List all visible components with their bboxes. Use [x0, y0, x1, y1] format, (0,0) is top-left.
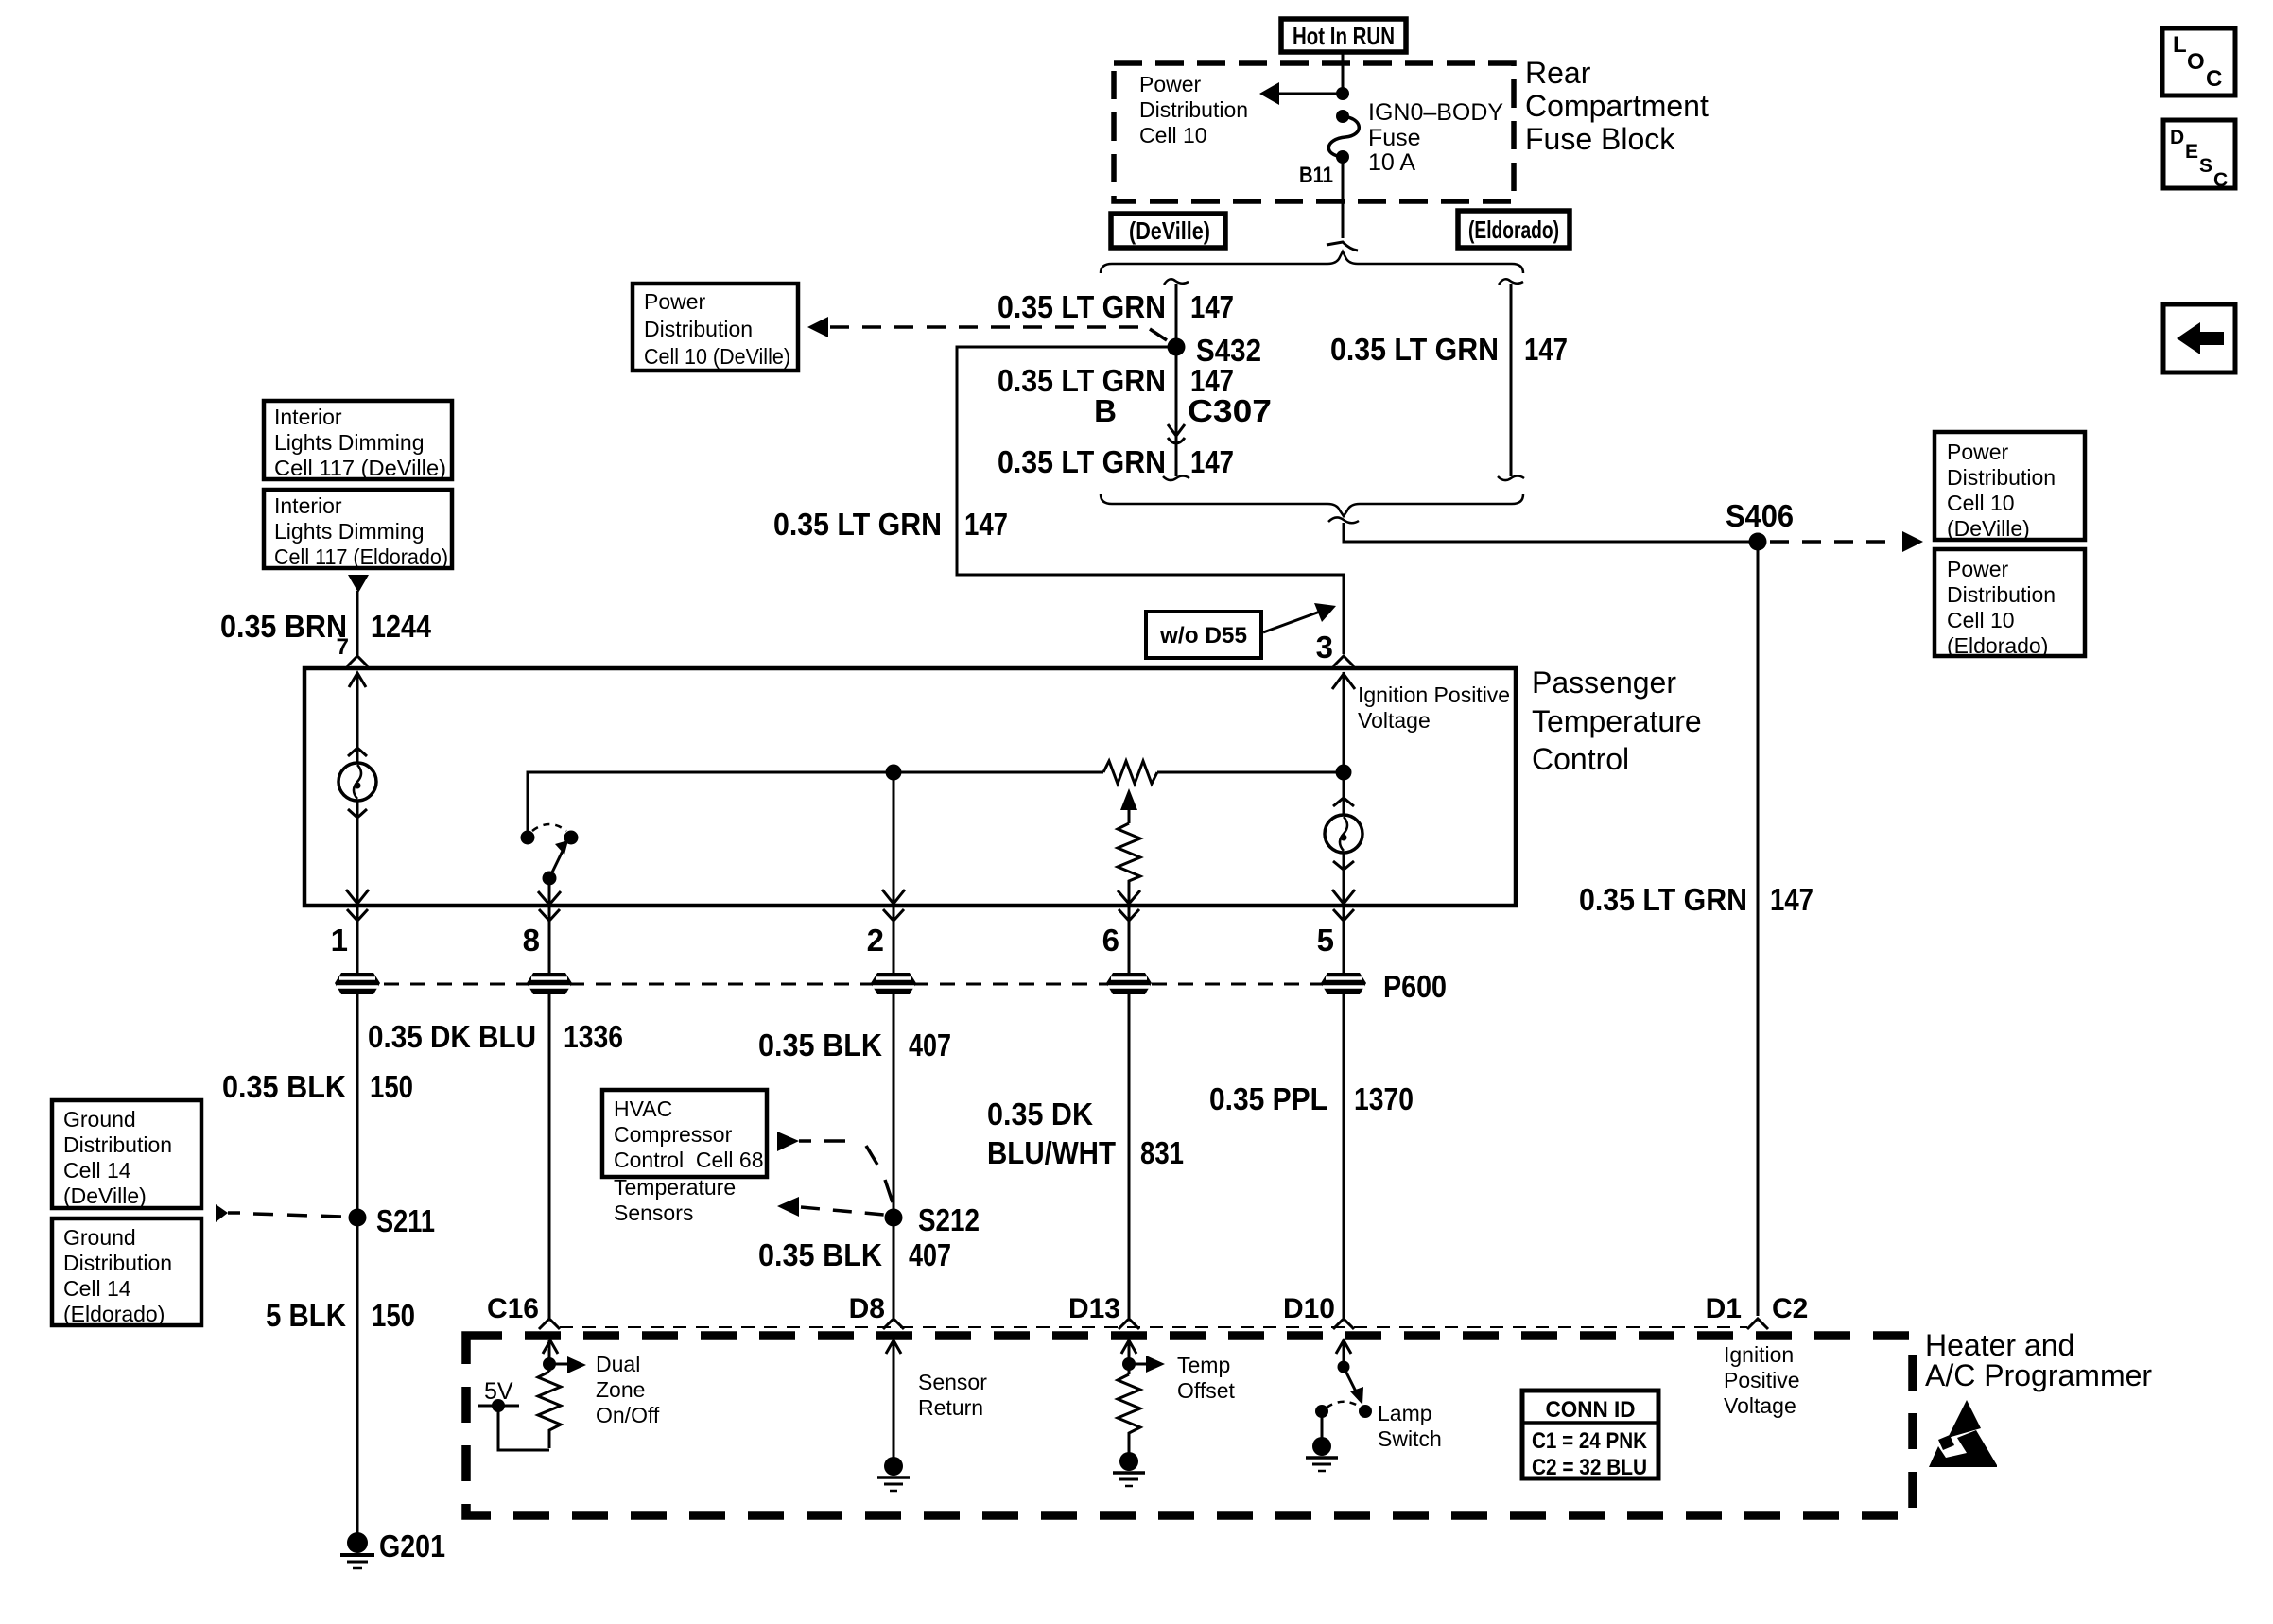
svg-text:0.35 BLK: 0.35 BLK — [758, 1028, 882, 1063]
svg-text:0.35 LT GRN: 0.35 LT GRN — [998, 289, 1166, 324]
svg-text:D1: D1 — [1706, 1293, 1742, 1324]
P600 connector symbol pin 1 — [335, 973, 380, 994]
resistor dual zone — [538, 1372, 561, 1448]
back arrow icon box — [2163, 304, 2235, 372]
dashed arrow Temperature Sensors to S212 — [777, 1197, 799, 1217]
svg-text:5 BLK: 5 BLK — [266, 1298, 346, 1333]
svg-text:IGN0–BODY: IGN0–BODY — [1368, 99, 1503, 126]
resistor (temperature rheostat) on bus — [1103, 761, 1157, 784]
svg-text:Control: Control — [1532, 742, 1629, 776]
Ground Distribution Cell 14 (Eldorado) box — [52, 1218, 201, 1325]
Power Distribution Cell 10 (DeVille) callout box — [633, 284, 798, 371]
svg-text:Cell 10: Cell 10 — [1947, 608, 2015, 632]
svg-text:P600: P600 — [1383, 969, 1447, 1004]
svg-text:BLU/WHT: BLU/WHT — [987, 1135, 1116, 1170]
LOC icon box — [2162, 28, 2235, 95]
Interior Lights Dimming Cell 117 (Eldorado) box — [264, 490, 452, 568]
splice S211 — [349, 1209, 367, 1227]
svg-text:Dual: Dual — [596, 1352, 640, 1376]
P600 connector symbol pin 2 — [871, 973, 916, 994]
svg-text:Voltage: Voltage — [1358, 708, 1431, 733]
svg-text:Control Cell 68: Control Cell 68 — [614, 1148, 764, 1172]
Power Distribution Cell 10 (Eldorado) box right — [1935, 549, 2085, 656]
svg-text:0.35 DK BLU: 0.35 DK BLU — [368, 1019, 536, 1054]
CONN ID box — [1522, 1391, 1658, 1478]
svg-text:L: L — [2173, 32, 2187, 58]
svg-text:Distribution: Distribution — [1139, 97, 1248, 122]
svg-text:0.35 LT GRN: 0.35 LT GRN — [998, 363, 1166, 398]
svg-text:Distribution: Distribution — [1947, 582, 2056, 607]
wire from S432 left and down to pin 3 — [957, 347, 1344, 654]
svg-text:Sensor: Sensor — [918, 1370, 987, 1394]
(DeVille) box — [1111, 214, 1225, 248]
(Eldorado) box — [1458, 211, 1570, 248]
dashed arrow to Power Distribution Cell 10 (DeVille) — [807, 317, 828, 337]
P600 connector symbol pin 6 — [1106, 973, 1152, 994]
svg-text:0.35 LT GRN: 0.35 LT GRN — [998, 444, 1166, 479]
svg-text:1: 1 — [331, 923, 348, 958]
wire pin 2 down to D8 — [893, 906, 895, 1318]
svg-text:B: B — [1094, 393, 1117, 428]
svg-text:10 A: 10 A — [1368, 149, 1415, 176]
svg-text:Positive: Positive — [1724, 1368, 1800, 1392]
svg-text:G201: G201 — [379, 1529, 445, 1564]
svg-text:Ground: Ground — [63, 1107, 136, 1132]
svg-text:3: 3 — [1316, 630, 1333, 665]
svg-text:Fuse Block: Fuse Block — [1525, 122, 1675, 156]
brace splitting to DeVille and Eldorado — [1101, 251, 1523, 273]
svg-text:Interior: Interior — [274, 405, 342, 429]
svg-text:Passenger: Passenger — [1532, 665, 1676, 700]
brace merging branches — [1101, 494, 1523, 516]
svg-text:150: 150 — [370, 1069, 413, 1104]
svg-text:w/o D55: w/o D55 — [1159, 623, 1247, 648]
svg-text:Compartment: Compartment — [1525, 89, 1709, 123]
svg-text:Power: Power — [1139, 72, 1202, 96]
w/o D55 box — [1146, 612, 1261, 658]
wire S406 down to C2 — [1757, 542, 1760, 1316]
svg-text:Zone: Zone — [596, 1377, 645, 1402]
wire from brace to S406 — [1344, 523, 1751, 542]
svg-text:0.35 BLK: 0.35 BLK — [222, 1069, 346, 1104]
potentiometer wiper arrow pin 6 — [1120, 788, 1137, 810]
svg-text:Cell 10: Cell 10 — [1139, 123, 1207, 147]
svg-text:0.35 LT GRN: 0.35 LT GRN — [1579, 882, 1747, 917]
svg-text:Sensors: Sensors — [614, 1201, 693, 1225]
svg-text:(DeVille): (DeVille) — [1129, 216, 1210, 245]
svg-text:Compressor: Compressor — [614, 1122, 733, 1147]
svg-text:7: 7 — [337, 634, 349, 660]
wire pin 5 down to D10 — [1343, 906, 1345, 1318]
dashed arrow from HVAC box to S212 — [777, 1132, 799, 1151]
svg-text:D13: D13 — [1068, 1293, 1120, 1324]
Interior Lights Dimming Cell 117 (DeVille) box — [264, 401, 452, 479]
svg-text:S212: S212 — [918, 1202, 980, 1237]
svg-text:147: 147 — [1190, 444, 1234, 479]
DeVille branch wire end foot — [1163, 476, 1189, 481]
P600 connector symbol pin 8 — [527, 973, 572, 994]
svg-text:S: S — [2199, 155, 2212, 177]
svg-text:Voltage: Voltage — [1724, 1393, 1796, 1418]
svg-text:Switch: Switch — [1378, 1426, 1442, 1451]
svg-text:0.35 BRN: 0.35 BRN — [220, 609, 347, 644]
svg-text:Hot In RUN: Hot In RUN — [1293, 22, 1395, 50]
Ground Distribution Cell 14 (DeVille) box — [52, 1100, 201, 1208]
svg-text:Interior: Interior — [274, 493, 342, 518]
P600 connector symbol pin 5 — [1321, 973, 1366, 994]
wire arrow to Power Distribution Cell 10 — [1276, 93, 1343, 95]
lamp switch circuit D10 — [1336, 1340, 1351, 1354]
svg-text:Lights Dimming: Lights Dimming — [274, 519, 425, 544]
arrow down pin 6 — [1128, 886, 1131, 904]
svg-text:E: E — [2185, 141, 2198, 163]
squiggle below brace — [1328, 517, 1359, 523]
svg-text:O: O — [2187, 49, 2205, 75]
svg-text:CONN ID: CONN ID — [1546, 1397, 1636, 1423]
svg-text:5: 5 — [1317, 923, 1334, 958]
svg-text:Power: Power — [1947, 557, 2009, 581]
internal bus wire — [528, 772, 1103, 831]
arrow up inside pin 3 — [1332, 674, 1355, 689]
svg-text:147: 147 — [1524, 332, 1568, 367]
svg-text:A/C Programmer: A/C Programmer — [1925, 1358, 2152, 1392]
svg-text:Cell 117 (Eldorado): Cell 117 (Eldorado) — [274, 544, 448, 569]
junction dot at fuse feed — [1336, 87, 1349, 100]
DESC icon box — [2163, 120, 2235, 188]
resistor vertical pin 6 — [1118, 823, 1140, 886]
svg-text:Ignition: Ignition — [1724, 1342, 1794, 1367]
svg-text:147: 147 — [964, 507, 1008, 542]
Rear Compartment Fuse Block dashed box — [1114, 63, 1514, 201]
svg-text:Return: Return — [918, 1395, 983, 1420]
fuse IGN0-BODY 10A — [1336, 110, 1349, 123]
svg-text:Fuse: Fuse — [1368, 125, 1421, 151]
wire 0.35 BRN 1244 to pin 7 — [356, 591, 359, 655]
svg-text:C: C — [2206, 66, 2222, 92]
wire Eldorado branch (LT GRN 147) — [1510, 284, 1513, 476]
svg-text:Distribution: Distribution — [63, 1132, 172, 1157]
svg-text:Temperature: Temperature — [1532, 704, 1702, 738]
svg-text:Lamp: Lamp — [1378, 1401, 1432, 1425]
connector edge dashed line (heater) — [560, 1326, 1747, 1328]
svg-text:Power: Power — [1947, 440, 2009, 464]
svg-text:0.35 LT GRN: 0.35 LT GRN — [1330, 332, 1499, 367]
svg-text:D: D — [2170, 127, 2184, 148]
svg-text:Cell 117 (DeVille): Cell 117 (DeVille) — [274, 456, 446, 480]
svg-text:Ignition Positive: Ignition Positive — [1358, 682, 1510, 707]
wire pin 8 down to C16 — [548, 906, 551, 1318]
svg-text:Temperature: Temperature — [614, 1175, 736, 1200]
arrow w/o D55 to wire — [1263, 612, 1320, 632]
svg-text:831: 831 — [1140, 1135, 1184, 1170]
wire B11 below fuse — [1342, 157, 1345, 238]
svg-text:S406: S406 — [1726, 498, 1794, 533]
HVAC Compressor Control Cell 68 box — [602, 1090, 767, 1177]
svg-text:0.35 BLK: 0.35 BLK — [758, 1237, 882, 1272]
ground (lamp switch) — [1312, 1437, 1331, 1456]
svg-text:C: C — [2213, 169, 2228, 191]
svg-text:6: 6 — [1102, 923, 1119, 958]
wire pin 1 down to G201 — [356, 906, 359, 1533]
svg-text:D8: D8 — [849, 1293, 885, 1324]
svg-text:8: 8 — [523, 923, 540, 958]
svg-text:Offset: Offset — [1177, 1378, 1236, 1403]
ESD symbol — [1948, 1400, 1981, 1438]
wire pin3 down inside box — [1343, 672, 1345, 817]
svg-text:Cell 10: Cell 10 — [1947, 491, 2015, 515]
arrow down pin 5 — [1332, 890, 1355, 904]
svg-text:Cell 14: Cell 14 — [63, 1158, 131, 1183]
wire end foot above brace — [1327, 242, 1358, 251]
svg-text:D10: D10 — [1283, 1293, 1335, 1324]
svg-text:Distribution: Distribution — [1947, 465, 2056, 490]
svg-text:HVAC: HVAC — [614, 1097, 672, 1121]
svg-text:407: 407 — [909, 1237, 951, 1272]
svg-text:Cell 10 (DeVille): Cell 10 (DeVille) — [644, 344, 790, 369]
svg-text:1336: 1336 — [564, 1019, 623, 1054]
sensor return circuit D8 — [886, 1340, 901, 1354]
temp offset circuit D13 — [1121, 1340, 1136, 1354]
svg-text:2: 2 — [867, 923, 884, 958]
Eldorado branch wire hook — [1499, 279, 1523, 285]
svg-text:C2 = 32 BLU: C2 = 32 BLU — [1532, 1455, 1647, 1480]
svg-text:C1 = 24 PNK: C1 = 24 PNK — [1532, 1428, 1648, 1454]
svg-text:147: 147 — [1770, 882, 1813, 917]
svg-text:0.35 PPL: 0.35 PPL — [1209, 1081, 1327, 1116]
svg-text:On/Off: On/Off — [596, 1403, 660, 1427]
svg-text:147: 147 — [1190, 289, 1234, 324]
ground (temp offset) — [1119, 1452, 1138, 1471]
svg-text:C16: C16 — [487, 1293, 539, 1324]
svg-text:B11: B11 — [1299, 163, 1333, 188]
dashed arrow from ground boxes to S211 — [216, 1204, 228, 1222]
wire pin 6 down to D13 — [1128, 906, 1131, 1318]
svg-text:Lights Dimming: Lights Dimming — [274, 430, 425, 455]
svg-text:Temp: Temp — [1177, 1353, 1230, 1377]
connector P600 dashed line — [357, 983, 1344, 986]
svg-text:(Eldorado): (Eldorado) — [63, 1302, 165, 1326]
svg-text:1244: 1244 — [371, 609, 432, 644]
svg-text:407: 407 — [909, 1028, 951, 1063]
svg-text:Power: Power — [644, 289, 706, 314]
svg-text:Cell 14: Cell 14 — [63, 1276, 131, 1301]
dashed arrow to Power Distribution Cell 10 boxes — [1770, 540, 1899, 544]
wire below lamp 5 — [1343, 853, 1345, 904]
splice S406 — [1749, 533, 1767, 551]
arrow from Interior Lights Dimming boxes — [348, 575, 369, 593]
svg-text:0.35 LT GRN: 0.35 LT GRN — [773, 507, 942, 542]
junction dot bus/pin2 — [886, 765, 902, 781]
wire pin 2 inside box — [893, 772, 895, 904]
Passenger Temperature Control box — [304, 668, 1516, 906]
svg-text:Rear: Rear — [1525, 56, 1591, 90]
svg-text:150: 150 — [372, 1298, 415, 1333]
svg-text:(DeVille): (DeVille) — [1947, 516, 2030, 541]
ground G201 — [347, 1532, 368, 1553]
svg-text:C2: C2 — [1772, 1293, 1808, 1324]
lamp pin 1/7 (dimmed lamps) — [349, 673, 366, 687]
wire DeVille branch (LT GRN 147) — [1175, 284, 1178, 476]
lamp pin 5 (dimming indicator) — [1333, 798, 1354, 806]
ground (sensor return) — [884, 1457, 903, 1476]
DeVille branch wire hook — [1164, 279, 1189, 285]
svg-text:(Eldorado): (Eldorado) — [1468, 216, 1559, 244]
splice S432 — [1168, 338, 1186, 356]
svg-text:(DeVille): (DeVille) — [63, 1183, 147, 1208]
Power Distribution Cell 10 (DeVille) box right — [1935, 432, 2085, 540]
svg-text:1370: 1370 — [1354, 1081, 1414, 1116]
connector C307 symbol — [1168, 424, 1185, 436]
Hot In RUN box — [1281, 19, 1406, 52]
svg-text:S211: S211 — [376, 1203, 435, 1238]
svg-text:C307: C307 — [1188, 393, 1272, 428]
dual zone circuit C16 — [543, 1340, 558, 1354]
svg-text:Ground: Ground — [63, 1225, 136, 1250]
svg-text:Heater and: Heater and — [1925, 1328, 2074, 1362]
svg-text:Distribution: Distribution — [644, 317, 753, 341]
switch pin 8 (dual zone switch) — [521, 831, 535, 845]
Heater and A/C Programmer dashed box — [466, 1336, 1913, 1515]
splice S212 — [885, 1209, 903, 1227]
svg-text:(Eldorado): (Eldorado) — [1947, 633, 2048, 658]
resistor temp offset — [1118, 1374, 1140, 1453]
Eldorado branch wire end foot — [1498, 476, 1524, 481]
wire from Hot In RUN into fuse block — [1342, 52, 1345, 89]
junction dot bus/pin5 — [1336, 765, 1352, 781]
svg-text:Distribution: Distribution — [63, 1251, 172, 1275]
svg-text:0.35 DK: 0.35 DK — [987, 1097, 1093, 1132]
